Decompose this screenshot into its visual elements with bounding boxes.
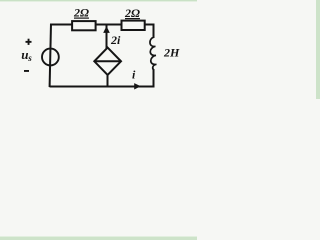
svg-text:2Ω: 2Ω [73,6,89,20]
controlled source bar [95,60,120,62]
arrowhead of 2i (up) [103,26,110,33]
wire: bottom horizontal [50,86,155,88]
wire: middle branch upper segment [106,26,108,49]
wire: top horizontal [51,24,154,26]
frame bottom band [0,236,197,240]
voltage source us (circle symbol) [42,49,59,66]
arrowhead of current i (right) [134,83,141,89]
wire: left vertical [50,24,51,88]
label minus [24,70,29,72]
resistor R1 2ohm (box) [72,21,96,30]
label + (plus sign) [26,39,32,45]
wire: right vertical top segment [153,24,155,39]
inductor L 2H (coil) [150,37,157,70]
frame top band [0,0,197,2]
controlled current source 2i (diamond) [94,48,121,75]
svg-text:2Ω: 2Ω [124,6,140,20]
frame right band [316,0,320,99]
wire: middle branch lower segment [107,75,109,87]
wire: right vertical bottom segment [153,69,155,87]
svg-text:2H: 2H [163,46,180,60]
svg-text:i: i [132,68,136,82]
resistor R2 2ohm (box) [122,21,145,30]
svg-text:2i: 2i [110,33,121,47]
svg-text:s: s [27,53,32,63]
